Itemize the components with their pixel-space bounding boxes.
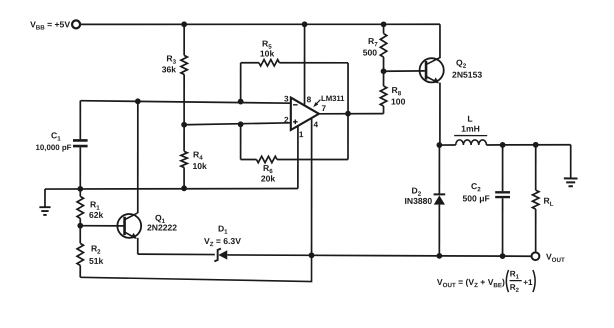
node pin3 wire / Q1 collector (135, 98, 141, 104)
wire R4 bottom (183, 167, 185, 188)
wire top rail (80, 23, 440, 25)
wire R8 top stub (383, 71, 385, 86)
wire pin3 net horizontal (80, 101, 291, 104)
node Q2 base / R7-R8 (381, 68, 387, 74)
wire R7 bottom stub (383, 57, 385, 71)
node top rail / R3 (181, 21, 187, 27)
svg-text:7: 7 (322, 104, 327, 113)
diode D2 IN3880 (404, 186, 445, 206)
svg-text:4: 4 (314, 120, 319, 129)
node top rail / R7 (381, 21, 387, 27)
node L right / C2 (500, 142, 506, 148)
wire R3 top (183, 24, 185, 55)
svg-text:51k: 51k (89, 256, 104, 266)
node R1-R2-Q1 base (77, 223, 83, 229)
svg-text:3: 3 (284, 94, 289, 103)
op-amp U1 LM311 (291, 94, 345, 130)
inductor L 1mH (454, 114, 487, 145)
wire RL top stub (535, 145, 537, 190)
node D1 wire / pin 4 (309, 252, 315, 258)
wire R5-R6 right vertical (347, 63, 349, 160)
wire L left stub (439, 144, 455, 146)
wire pin4 node to D2 node (312, 254, 440, 257)
wire R4 top (183, 125, 185, 152)
svg-text:2N5153: 2N5153 (452, 70, 482, 80)
resistor R2 (77, 243, 103, 266)
wire R5 right horizontal (279, 62, 348, 64)
node out rail / C2 (500, 253, 506, 259)
ground left (39, 189, 50, 215)
transistor Q2 2N5153 (420, 58, 483, 84)
wire R8 bottom stub (383, 106, 385, 114)
capacitor C2 (462, 181, 510, 203)
wire Q1 emitter (137, 238, 139, 254)
resistor R7 (363, 34, 387, 58)
wire output pin 7 (319, 113, 384, 115)
node output / feedback (345, 111, 351, 117)
wire pin2 net (184, 123, 291, 125)
ground right (564, 145, 578, 187)
resistor R1 (77, 196, 103, 220)
wire L right stub (486, 144, 502, 146)
diode D1 zener 6.3V (204, 223, 241, 261)
wire pin 8 (304, 24, 306, 105)
terminal VBB +5V (30, 19, 80, 31)
node pin2 wire / R6 (238, 121, 244, 127)
node out rail / D2 (436, 253, 442, 259)
wire C2 top (502, 145, 504, 191)
wire R3 bottom (183, 74, 185, 124)
node L left / D2 / Q2 emitter (437, 142, 443, 148)
node pin3 wire / R5 (238, 99, 244, 105)
wire C2 bottom (502, 198, 504, 256)
wire emitter to D1 (138, 253, 215, 255)
wire C1 bottom (79, 147, 81, 189)
wire RL bottom stub (535, 209, 537, 252)
wire D2 top (438, 145, 440, 195)
node ground rail / R4 (181, 185, 187, 191)
svg-text:+1: +1 (523, 278, 533, 287)
wire R6 left horizontal (241, 158, 257, 160)
svg-text:20k: 20k (261, 173, 276, 183)
wire R1 top stub (79, 189, 81, 197)
wire R2 bottom stub (79, 265, 81, 277)
capacitor C1 (36, 130, 88, 152)
terminal VOUT (532, 252, 565, 264)
wire R7 top stub (383, 24, 385, 33)
wire R5 left vertical (240, 63, 242, 102)
node pin2 wire / R3-R4 (181, 122, 187, 128)
wire Q2 base (384, 70, 425, 72)
wire Q1 collector (137, 101, 139, 213)
wire D1 to pin4 node (227, 254, 311, 256)
wire R6 left vertical (240, 124, 242, 159)
wire pin 4 (311, 118, 313, 255)
wire D2 bottom (438, 205, 440, 256)
svg-text:1: 1 (299, 130, 304, 139)
svg-text:IN3880: IN3880 (404, 196, 432, 206)
svg-text:10k: 10k (192, 161, 207, 171)
svg-text:500: 500 (363, 48, 378, 58)
svg-text:LM311: LM311 (321, 94, 345, 103)
wire C1 top (79, 101, 81, 140)
wire Q2 emitter (439, 83, 441, 146)
svg-text:1mH: 1mH (461, 124, 480, 134)
svg-text:L: L (467, 114, 472, 124)
svg-text:10k: 10k (260, 48, 275, 58)
wire R5 left horizontal (241, 62, 259, 64)
wire ground rail (45, 187, 298, 190)
wire top right (503, 144, 571, 146)
resistor R6 (256, 156, 277, 183)
transistor Q1 2N2222 (117, 213, 177, 239)
node RL top (533, 142, 539, 148)
svg-text:36k: 36k (162, 64, 177, 74)
resistor R4 (181, 149, 207, 171)
node ground rail / C1 / R1 (77, 186, 83, 192)
wire R2 top stub (79, 226, 81, 244)
formula Vout (437, 269, 535, 293)
wire output rail (439, 255, 531, 257)
wire R1 bottom stub (79, 218, 81, 225)
wire pin 1 (297, 126, 299, 189)
resistor R8 (380, 85, 405, 107)
wire bottom return (80, 255, 311, 281)
svg-text:500 μF: 500 μF (462, 193, 489, 203)
resistor R3 (162, 53, 188, 74)
node top rail / pin 8 (302, 21, 308, 27)
wire R6 right horizontal (277, 158, 348, 160)
svg-text:8: 8 (307, 95, 312, 104)
wire Q2 collector (439, 24, 441, 58)
resistor RL (532, 190, 553, 209)
svg-text:10,000 pF: 10,000 pF (36, 143, 72, 152)
wire Q1 base (80, 225, 123, 227)
svg-text:62k: 62k (89, 210, 104, 220)
svg-text:100: 100 (391, 97, 406, 107)
svg-text:2N2222: 2N2222 (147, 223, 177, 233)
resistor R5 (259, 38, 279, 66)
